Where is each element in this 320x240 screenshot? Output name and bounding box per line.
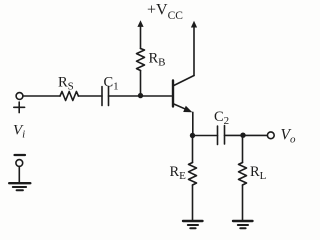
plus sign of input (14, 106, 25, 108)
junction node at RL top (240, 133, 245, 138)
input terminal Vi+ (16, 93, 23, 100)
wire C2 to output (225, 134, 268, 136)
output terminal Vo (267, 132, 274, 139)
wire RL to ground (242, 185, 244, 221)
resistor RB (137, 49, 145, 71)
wire RE to ground (192, 185, 194, 221)
capacitor C1 (101, 87, 103, 106)
junction node at base (138, 93, 143, 98)
arrowhead of emitter (183, 106, 192, 112)
resistor RE (189, 163, 197, 186)
transistor Q1 emitter lead (174, 104, 188, 110)
junction node at emitter (190, 133, 195, 138)
wire C1 to base (109, 95, 172, 97)
transistor Q1 base bar (172, 81, 174, 107)
resistor RL (239, 163, 247, 186)
ground under RL (233, 220, 253, 222)
wire node to RL (242, 136, 244, 163)
arrowhead to +Vcc right (191, 21, 197, 28)
wire Rs to C1 (78, 95, 102, 97)
arrowhead to +Vcc left (137, 20, 143, 27)
wire node to RE (192, 136, 194, 163)
resistor RS (60, 92, 78, 101)
wire input to Rs (23, 95, 60, 97)
transistor Q1 collector lead (174, 76, 194, 86)
wire RB to Vcc arrow (140, 27, 142, 49)
wire terminal to ground (18, 166, 20, 182)
ground under RE (183, 220, 203, 222)
input terminal Vi- (16, 160, 23, 167)
wire base node up to RB (140, 71, 142, 96)
wire emitter down to node (192, 112, 194, 135)
ground at input (9, 182, 30, 184)
wire collector vertical (193, 27, 195, 76)
wire emitter node to C2 (193, 135, 218, 137)
minus sign of input (15, 154, 26, 156)
capacitor C2 (217, 126, 219, 145)
